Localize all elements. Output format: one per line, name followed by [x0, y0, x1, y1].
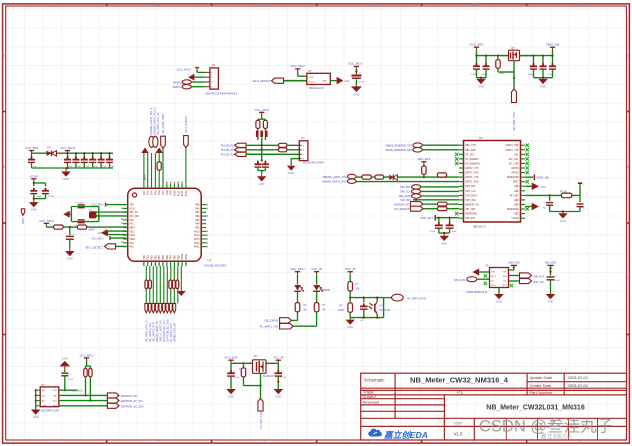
- svg-text:VBAT: VBAT: [513, 181, 519, 184]
- svg-text:PA10: PA10: [173, 190, 176, 196]
- net pod flag top 3: [161, 136, 166, 148]
- svg-text:0.1uF: 0.1uF: [281, 377, 287, 379]
- wire MCU top bundle: [143, 153, 145, 184]
- svg-text:4: 4: [368, 440, 370, 444]
- svg-text:GND: GND: [31, 208, 37, 212]
- svg-text:UART2_CTS: UART2_CTS: [465, 167, 479, 170]
- resistor row2: [279, 148, 287, 152]
- svg-text:Part Number: Part Number: [530, 390, 553, 395]
- svg-text:PULSE-4P2.54-MF4: PULSE-4P2.54-MF4: [303, 162, 325, 164]
- svg-text:PA13: PA13: [185, 190, 188, 196]
- wire cross top: [261, 115, 263, 119]
- wire nrst gnd: [69, 239, 71, 247]
- svg-text:VDD: VDD: [130, 204, 135, 207]
- svg-text:PA12: PA12: [181, 190, 184, 196]
- net pod EEPROM_SCL: [107, 398, 119, 403]
- svg-text:SIM_DATA: SIM_DATA: [465, 194, 477, 197]
- svg-text:GND: GND: [540, 85, 546, 89]
- wire led2 flag: [316, 312, 318, 326]
- svg-text:Page: Page: [364, 389, 374, 394]
- svg-text:PB0: PB0: [143, 255, 146, 260]
- ground GND cross: [261, 173, 263, 177]
- svg-text:LED_DRIVE_PWM: LED_DRIVE_PWM: [162, 114, 165, 134]
- svg-text:PULSE_P1: PULSE_P1: [221, 145, 234, 148]
- wire connector pin4 gnd: [291, 158, 299, 160]
- svg-text:CW32L031C8T6: CW32L031C8T6: [204, 263, 227, 267]
- svg-text:2023-07-01: 2023-07-01: [568, 375, 589, 380]
- net pod flags bottom row: [145, 303, 148, 312]
- svg-text:VCC_MCU: VCC_MCU: [79, 353, 93, 357]
- svg-text:UART2_RXD: UART2_RXD: [506, 144, 520, 147]
- svg-text:Drawed: Drawed: [363, 395, 376, 399]
- resistor R? 10K sw: [243, 363, 245, 368]
- svg-text:NB4005_UART1_TXD: NB4005_UART1_TXD: [323, 176, 347, 179]
- wire antenna: [525, 194, 580, 196]
- wire bottom rail top-left: [32, 167, 114, 169]
- ground arrow key: [337, 77, 344, 85]
- svg-text:I2C_SCL: I2C_SCL: [508, 158, 519, 161]
- capacitor C? 0.1uF: [42, 190, 49, 192]
- svg-text:VCC_BAT: VCC_BAT: [25, 146, 39, 150]
- svg-text:0.1uF: 0.1uF: [48, 196, 54, 198]
- svg-text:GND: GND: [478, 85, 484, 89]
- svg-text:NB40S_RESERVE_RXD: NB40S_RESERVE_RXD: [385, 149, 412, 152]
- net ellipse flag top 2: [153, 136, 158, 147]
- wire keycap: [355, 68, 357, 74]
- svg-text:IR333C: IR333C: [323, 290, 331, 292]
- capacitor C? sw2: [277, 363, 279, 371]
- ground arrow MCU VSS: [101, 229, 108, 236]
- wire led1: [297, 274, 299, 284]
- wire NRST: [45, 226, 47, 227]
- svg-text:SIO2: SIO2: [491, 285, 497, 287]
- eeprom left pins gnd bus: [36, 389, 41, 391]
- svg-text:0.1uF: 0.1uF: [359, 81, 365, 83]
- svg-text:INT_WAKEUP: INT_WAKEUP: [394, 208, 410, 211]
- svg-text:PB1: PB1: [147, 255, 150, 260]
- svg-text:VDD: VDD: [503, 271, 508, 273]
- no-connect X left: [455, 153, 458, 156]
- svg-text:PA7: PA7: [162, 190, 165, 195]
- svg-text:USIM5.0SNZQ.B.W: USIM5.0SNZQ.B.W: [466, 291, 488, 294]
- MCU right pins: [201, 204, 206, 206]
- svg-text:10uF: 10uF: [471, 74, 477, 76]
- svg-text:10K: 10K: [239, 369, 243, 371]
- svg-text:GND: GND: [514, 199, 519, 202]
- svg-text:SP_WAKEUP2: SP_WAKEUP2: [465, 162, 480, 165]
- no-connect X right top: [526, 144, 529, 147]
- svg-text:PB9: PB9: [177, 255, 180, 260]
- NB module U? body: [464, 141, 521, 223]
- svg-text:NB4005_UART1_TXD_S: NB4005_UART1_TXD_S: [150, 107, 153, 134]
- svg-text:ADC: ADC: [514, 153, 519, 156]
- svg-text:KEY1_DETECT: KEY1_DETECT: [253, 80, 271, 83]
- svg-text:GND: GND: [514, 213, 519, 216]
- wire uart rxd long: [355, 181, 428, 183]
- svg-text:GND: GND: [344, 80, 350, 83]
- diode D? 1N5819: [47, 151, 52, 156]
- svg-text:RESERVED: RESERVED: [507, 208, 519, 211]
- svg-text:NB_PWR_CTRL: NB_PWR_CTRL: [513, 111, 516, 130]
- svg-text:PB3: PB3: [195, 227, 200, 230]
- wire vddext gnd: [439, 232, 450, 234]
- svg-text:GND: GND: [97, 232, 103, 235]
- svg-text:SIM_CLK: SIM_CLK: [534, 281, 545, 284]
- svg-text:PB5: PB5: [162, 255, 165, 260]
- svg-text:VCC_MCU: VCC_MCU: [91, 237, 104, 240]
- no-connect X sim esd left: [484, 274, 487, 277]
- resistor R? 100R rx: [348, 303, 353, 312]
- capacitor C? bat1: [475, 55, 477, 57]
- svg-text:GND: GND: [63, 177, 69, 181]
- svg-text:PIOL: PIOL: [309, 77, 315, 79]
- resistor R? 10K: [54, 225, 64, 229]
- svg-text:GND: GND: [514, 204, 519, 207]
- svg-text:U?: U?: [479, 136, 483, 140]
- svg-text:3: 3: [263, 2, 265, 6]
- ground GND bat right: [542, 78, 544, 79]
- svg-text:SIM_VDD: SIM_VDD: [400, 199, 411, 202]
- capacitor C? nrst: [66, 235, 74, 237]
- svg-text:PA3: PA3: [147, 190, 150, 195]
- svg-text:IR_PWR_CTRL: IR_PWR_CTRL: [260, 410, 263, 428]
- svg-text:PA8: PA8: [166, 190, 169, 195]
- svg-text:PB4: PB4: [158, 255, 161, 260]
- svg-text:NB_PWR_CTRL_S2: NB_PWR_CTRL_S2: [157, 112, 160, 135]
- svg-text:PB2: PB2: [151, 255, 154, 260]
- svg-text:VCAP: VCAP: [30, 174, 38, 178]
- antenna pad: [579, 184, 581, 196]
- switch U? MK24 reed: [307, 73, 331, 84]
- capacitor C? sw1: [230, 363, 232, 371]
- wire bat gnd rail right: [534, 77, 553, 79]
- svg-text:RS485_TXD_EN: RS485_TXD_EN: [174, 323, 177, 342]
- svg-text:GND: GND: [441, 241, 447, 245]
- svg-text:PF1: PF1: [130, 223, 135, 226]
- svg-text:Schematic: Schematic: [364, 378, 385, 383]
- EasyEDA logo: [368, 429, 381, 437]
- NB module left pins: [459, 144, 464, 146]
- svg-text:PT314-6B: PT314-6B: [380, 310, 391, 312]
- eeprom right wires: [59, 389, 77, 391]
- capacitor C? 0.1uF key: [351, 75, 361, 77]
- svg-text:DBG_TXD: DBG_TXD: [465, 144, 476, 147]
- resistor trio bottom: [169, 280, 172, 289]
- svg-text:VSS: VSS: [130, 230, 135, 233]
- svg-text:GND: GND: [288, 171, 294, 175]
- svg-text:GND: GND: [322, 81, 327, 83]
- capacitor C? ant2: [579, 195, 581, 202]
- MCU left pins: [123, 204, 128, 206]
- ground arrow module 1: [525, 185, 532, 187]
- svg-text:100R: 100R: [338, 310, 344, 312]
- capacitor C? 20pF top: [78, 204, 85, 206]
- wire vbat rail: [476, 50, 478, 56]
- MCU top pins: [143, 184, 145, 189]
- wire bat gnd rail left: [477, 77, 487, 79]
- svg-text:PB8: PB8: [195, 207, 200, 210]
- wire eeprom cap down: [64, 376, 66, 390]
- svg-text:PB6: PB6: [166, 255, 169, 260]
- svg-text:SIO1: SIO1: [491, 276, 497, 278]
- svg-text:GND: GND: [33, 415, 39, 419]
- eeprom U? 24C02 body: [40, 387, 59, 407]
- diode D? TVS uart: [389, 175, 393, 181]
- capacitor C? rx: [363, 298, 365, 303]
- wire power rail top-left: [32, 152, 114, 154]
- svg-text:SIM_CLK: SIM_CLK: [400, 191, 411, 194]
- svg-text:PA13: PA13: [194, 238, 200, 241]
- capacitor bank C1-C7: [31, 153, 33, 157]
- ground GND vcap: [33, 199, 35, 203]
- wire key gnd: [330, 80, 336, 82]
- ground GND connector: [290, 165, 292, 166]
- svg-text:SC: SC: [491, 281, 494, 283]
- capacitor C? nb2: [542, 55, 544, 57]
- net pod EEPROM_SDA: [107, 403, 119, 408]
- svg-text:SP_WAKEUP: SP_WAKEUP: [465, 158, 479, 161]
- svg-text:VCC_MCU: VCC_MCU: [291, 64, 305, 68]
- wire nrst cap: [69, 227, 71, 235]
- svg-text:OSC_OUT: OSC_OUT: [130, 215, 140, 218]
- net pod flag NB power: [512, 89, 517, 103]
- svg-text:5K: 5K: [304, 310, 307, 312]
- svg-text:PB7: PB7: [195, 211, 200, 214]
- no-connect X sim esd right: [510, 284, 513, 287]
- ground MCU bottom: [180, 266, 182, 288]
- wire antenna gnd rail: [550, 211, 580, 213]
- ground GND rx: [349, 318, 351, 320]
- wire crystal loop: [71, 206, 98, 208]
- ground arrow module 2: [525, 206, 532, 208]
- svg-text:VCC_BAT: VCC_BAT: [470, 43, 484, 47]
- svg-text:0.1uF: 0.1uF: [554, 280, 560, 282]
- wire gate link: [498, 71, 514, 73]
- svg-text:PB8: PB8: [173, 255, 176, 260]
- wire key: [284, 80, 307, 82]
- svg-text:VCC_IR: VCC_IR: [345, 267, 356, 271]
- power arrow top 1: [141, 148, 149, 154]
- wire VCAP bottom: [33, 194, 35, 199]
- svg-text:VCC_MCU: VCC_MCU: [290, 267, 304, 271]
- svg-text:VCC_MCU: VCC_MCU: [254, 108, 269, 112]
- svg-text:VBAT_NB: VBAT_NB: [537, 176, 549, 180]
- svg-text:GND: GND: [541, 186, 547, 189]
- svg-text:BOOT: BOOT: [145, 173, 147, 180]
- svg-text:2023-07-01: 2023-07-01: [568, 383, 589, 388]
- wire pullups to bus: [85, 377, 87, 396]
- svg-text:SDA: SDA: [53, 405, 58, 408]
- svg-text:R? 0R: R? 0R: [560, 191, 567, 193]
- svg-text:PB11: PB11: [185, 253, 188, 259]
- svg-text:PA6: PA6: [158, 190, 161, 195]
- svg-text:SIM_CLK: SIM_CLK: [465, 190, 476, 193]
- svg-text:SWDIO: SWDIO: [173, 82, 182, 85]
- wire rows to connector: [287, 144, 299, 146]
- svg-text:Update Date: Update Date: [530, 375, 553, 380]
- power arrow top 2: [155, 148, 163, 154]
- svg-text:4: 4: [368, 2, 370, 6]
- svg-text:100K: 100K: [500, 73, 506, 75]
- resistor R? 5K led1: [295, 303, 300, 312]
- svg-text:PA9: PA9: [170, 190, 173, 195]
- svg-text:EEPROM_I2C_SCL: EEPROM_I2C_SCL: [121, 400, 144, 403]
- wire led2 r: [316, 292, 318, 303]
- connector P? SWD 4-pin: [210, 68, 219, 89]
- resistor R? uart3: [437, 173, 446, 177]
- resistor R? 5K led2: [314, 303, 319, 312]
- svg-text:INT_OUT: INT_OUT: [465, 208, 476, 211]
- NB module pin names: [465, 144, 519, 220]
- ground GND esd: [498, 293, 500, 296]
- crystal Y? 32.768kHz: [90, 212, 97, 218]
- svg-text:0.1uF: 0.1uF: [68, 379, 74, 381]
- svg-text:VCC_MCU: VCC_MCU: [39, 219, 54, 223]
- wire key vcc: [297, 71, 299, 76]
- svg-text:PULSE_P3: PULSE_P3: [221, 154, 234, 157]
- svg-text:PB9: PB9: [195, 204, 200, 207]
- svg-text:DBG_RXD: DBG_RXD: [465, 149, 476, 152]
- svg-text:2: 2: [158, 440, 160, 444]
- transistor Q? photo PT314: [376, 298, 378, 302]
- svg-text:PC13: PC13: [130, 207, 136, 210]
- capacitor C? simvdd: [547, 276, 555, 278]
- ground GND eeprom: [35, 408, 37, 411]
- svg-text:GND: GND: [347, 325, 353, 329]
- ground GND bat left: [480, 78, 482, 79]
- svg-text:1: 1: [52, 440, 54, 444]
- capacitor C? 10uF: [30, 190, 37, 192]
- svg-text:VER: VER: [454, 421, 462, 425]
- svg-text:GND: GND: [514, 185, 519, 188]
- svg-text:VCC_MCU: VCC_MCU: [70, 390, 83, 393]
- svg-text:NB_Meter_CW32_NM316_4: NB_Meter_CW32_NM316_4: [410, 375, 509, 384]
- svg-text:10K: 10K: [356, 289, 361, 291]
- svg-text:UART2_RTS: UART2_RTS: [465, 172, 479, 175]
- svg-text:6: 6: [579, 440, 581, 444]
- svg-text:PA2: PA2: [143, 190, 146, 195]
- connector P? pulse 4-pin: [299, 141, 308, 161]
- svg-text:GND: GND: [42, 406, 47, 408]
- svg-text:VCC_MCU: VCC_MCU: [60, 146, 75, 150]
- svg-text:VCC_BAT: VCC_BAT: [224, 356, 237, 360]
- svg-text:GND: GND: [62, 356, 68, 360]
- wire eeprom cap: [64, 369, 66, 372]
- svg-text:UART1_TXD: UART1_TXD: [465, 176, 479, 179]
- svg-text:VDDA: VDDA: [130, 238, 136, 241]
- svg-text:PA4: PA4: [151, 190, 154, 195]
- resistor R? uart1: [362, 175, 371, 179]
- LED D? infrared emit: [313, 285, 320, 291]
- svg-text:PA12: PA12: [194, 242, 200, 245]
- svg-text:0.1uF: 0.1uF: [430, 231, 436, 233]
- wire MCU bottom bundle: [145, 266, 147, 303]
- svg-text:MK24-B-2-OC: MK24-B-2-OC: [309, 87, 324, 90]
- svg-text:VCC_MCU: VCC_MCU: [177, 67, 191, 71]
- svg-text:SIM_VDD: SIM_VDD: [545, 261, 557, 265]
- svg-text:5: 5: [473, 2, 475, 6]
- wire rx bottom: [376, 314, 378, 318]
- svg-text:SIM_VDD: SIM_VDD: [465, 199, 476, 202]
- svg-text:10uF: 10uF: [452, 231, 458, 233]
- junction nrst: [69, 226, 71, 228]
- svg-text:10uF: 10uF: [528, 74, 534, 76]
- MCU bottom pins: [143, 261, 145, 266]
- wire esd vdd pin: [509, 269, 514, 271]
- wire nb power ctrl: [513, 77, 515, 79]
- svg-text:PA15: PA15: [194, 230, 200, 233]
- wire rx row: [350, 297, 383, 299]
- resistor R? sda pullup: [89, 368, 92, 377]
- svg-text:IR_UART1_RXD: IR_UART1_RXD: [407, 298, 426, 301]
- svg-text:PB4: PB4: [195, 223, 200, 226]
- ground GND vddext: [443, 233, 445, 236]
- wire sw gate: [244, 385, 261, 387]
- ground GND nrst: [69, 248, 71, 252]
- svg-text:PA5: PA5: [154, 190, 157, 195]
- svg-text:P1: P1: [457, 390, 463, 395]
- svg-text:SIM_VDD: SIM_VDD: [508, 261, 520, 265]
- capacitor C? eeprom: [61, 372, 68, 374]
- wire cross to rows: [257, 137, 259, 140]
- svg-text:GPIO3: GPIO3: [511, 167, 519, 170]
- NB module right pins: [521, 144, 526, 146]
- ground GND filter: [66, 167, 68, 169]
- svg-text:UART2_TXD: UART2_TXD: [506, 149, 520, 152]
- svg-text:嘉立创EDA: 嘉立创EDA: [383, 430, 428, 440]
- svg-text:C? 20pF: C? 20pF: [75, 202, 84, 204]
- svg-text:WAKEUP_INT: WAKEUP_INT: [394, 203, 410, 206]
- wire keycap gnd: [355, 79, 357, 86]
- svg-text:VCC_MCU: VCC_MCU: [91, 204, 104, 207]
- svg-text:VSSA: VSSA: [130, 234, 136, 237]
- ground arrow swd: [188, 74, 194, 81]
- resistor row1: [279, 143, 287, 147]
- title block table: [361, 373, 627, 440]
- resistor R? uart2: [375, 175, 384, 179]
- svg-text:PA11: PA11: [194, 246, 200, 249]
- wire rx mid: [349, 291, 351, 302]
- svg-text:LED_DRIVE: LED_DRIVE: [264, 320, 278, 323]
- svg-text:OSC_IN: OSC_IN: [130, 211, 139, 214]
- svg-text:VCC_MCU: VCC_MCU: [348, 61, 362, 65]
- ground GND sw1: [230, 388, 232, 391]
- capacitor C? 20pF bottom: [78, 219, 85, 221]
- svg-text:NB4005_UART1_RXD: NB4005_UART1_RXD: [322, 181, 346, 184]
- svg-text:VCC_IR: VCC_IR: [273, 356, 284, 360]
- svg-text:5: 5: [473, 440, 475, 444]
- resistor pair bottom: [145, 280, 148, 289]
- resistor R? 100K gate: [497, 55, 499, 57]
- resistor R? wakeup pair: [437, 202, 447, 206]
- capacitor C? nb3: [551, 55, 553, 57]
- svg-text:GND: GND: [259, 182, 265, 186]
- wire VCAP: [33, 181, 35, 186]
- capacitor C? ant1: [549, 195, 551, 200]
- wire led2: [316, 274, 318, 284]
- svg-text:VBAT_NB: VBAT_NB: [546, 43, 559, 47]
- capacitor C? nb1: [532, 55, 534, 57]
- wire led1 flag: [297, 312, 299, 321]
- svg-text:WAKEUP_IN: WAKEUP_IN: [465, 204, 479, 207]
- svg-text:SP_INT: SP_INT: [465, 153, 474, 156]
- svg-text:PB6: PB6: [195, 215, 200, 218]
- resistor R? 0R antenna: [561, 193, 571, 198]
- ground GND antenna: [562, 212, 564, 214]
- ground GND simvdd: [550, 293, 552, 296]
- esd U? USIM body: [490, 268, 509, 288]
- net pod EEPROM_WP: [107, 393, 119, 398]
